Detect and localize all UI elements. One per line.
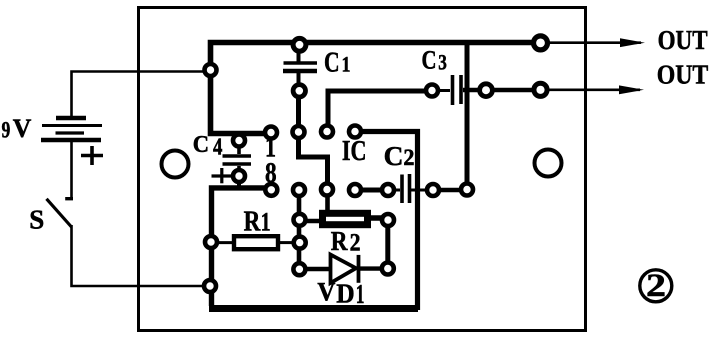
- battery lead hook foot: [65, 197, 73, 200]
- svg-text:D: D: [336, 279, 354, 309]
- wire: C2 row left segment: [355, 188, 388, 193]
- svg-text:IC: IC: [342, 136, 367, 167]
- wire: zigzag pin2 to row below: [299, 131, 328, 186]
- node: C2 right: [427, 184, 439, 196]
- node: C2 far right: [461, 184, 473, 196]
- svg-text:4: 4: [213, 134, 222, 160]
- switch S arm: [47, 199, 72, 227]
- node: R1 right: [294, 237, 306, 249]
- node: R2 left column: [294, 214, 306, 226]
- wire: vertical bus from top rail down to C2 row: [465, 42, 470, 190]
- wire: battery negative lead down to switch: [70, 142, 73, 198]
- wire: right leg and IC row: [358, 132, 418, 311]
- capacitor C4: [212, 143, 252, 188]
- node: OUT1 board pad: [534, 36, 548, 50]
- capacitor C3: [437, 75, 461, 105]
- svg-text:9: 9: [2, 118, 11, 143]
- wire: C1 bottom node down to pin row: [296, 94, 301, 130]
- node: C4 top: [233, 135, 245, 147]
- diode VD1: [304, 255, 383, 283]
- node: C2 left: [382, 184, 394, 196]
- board outline: [139, 8, 586, 331]
- wire: column chain below pin3: [297, 194, 302, 264]
- node: row2 col4: [321, 184, 333, 196]
- svg-text:V: V: [317, 278, 335, 307]
- node: OUT2 pad 1: [480, 84, 493, 97]
- wire: OUT1 lead and arrow: [540, 38, 645, 47]
- svg-text:C: C: [193, 132, 209, 158]
- wire: pin8 row, left leg: [212, 188, 267, 306]
- svg-text:R: R: [331, 226, 348, 256]
- battery B1 9V: [41, 118, 102, 140]
- svg-text:3: 3: [438, 49, 447, 74]
- svg-text:2: 2: [646, 268, 666, 304]
- wire: C2 row right segment: [433, 188, 467, 193]
- svg-text:S: S: [29, 205, 44, 235]
- svg-text:1: 1: [261, 208, 271, 237]
- wire: +V bus (top rail, left vertical and pin1 row): [211, 43, 541, 134]
- wire: battery positive lead to node A: [72, 72, 208, 119]
- wire: OUT2 row thick segment: [463, 88, 540, 93]
- mounting hole left: [162, 151, 189, 178]
- node: C3 left: [426, 85, 438, 97]
- node: VD1 left: [293, 263, 305, 275]
- svg-text:2: 2: [403, 145, 414, 170]
- svg-text:1: 1: [342, 52, 351, 77]
- capacitor C1: [283, 47, 317, 85]
- node: C4 bottom: [233, 170, 245, 182]
- wire: switch to return node: [72, 225, 207, 286]
- battery plus sign: [81, 146, 103, 165]
- svg-text:OUT: OUT: [658, 25, 708, 55]
- node: OUT2 pad 2: [534, 83, 547, 96]
- wire: R2 right node down to VD1: [385, 224, 390, 264]
- node: VD1 right: [382, 263, 394, 275]
- node: return junction: [204, 280, 216, 292]
- capacitor C2: [393, 174, 433, 203]
- svg-text:OUT: OUT: [657, 60, 709, 90]
- svg-text:1: 1: [356, 279, 365, 309]
- wire: bottom bus: [209, 305, 418, 312]
- node: C1 bottom: [293, 85, 305, 97]
- node: pin1: [265, 127, 277, 139]
- resistor R2: [304, 191, 384, 225]
- resistor R1: [214, 236, 295, 249]
- wire: C3 branch (up from pin row, across): [328, 91, 428, 128]
- wire: OUT2 lead and arrow: [540, 85, 644, 94]
- node: row2 col3: [293, 184, 305, 196]
- node: R2 right: [382, 214, 394, 226]
- node: battery junction: [205, 64, 217, 76]
- svg-text:V: V: [13, 114, 32, 143]
- svg-text:C: C: [422, 45, 437, 74]
- mounting hole right: [535, 150, 562, 177]
- node: pin row 3rd: [321, 126, 333, 138]
- node: C2 far left: [349, 184, 361, 196]
- svg-text:C: C: [324, 47, 340, 79]
- node: R1 left: [205, 236, 217, 248]
- node: pin row 4th: [349, 126, 361, 138]
- svg-text:R: R: [244, 207, 261, 238]
- node: pin2 top: [293, 126, 305, 138]
- figure number circled 2: [640, 268, 672, 304]
- svg-text:2: 2: [350, 229, 361, 256]
- node: C1 top: [293, 38, 306, 51]
- node: pin8: [265, 184, 277, 196]
- svg-text:C: C: [384, 141, 404, 171]
